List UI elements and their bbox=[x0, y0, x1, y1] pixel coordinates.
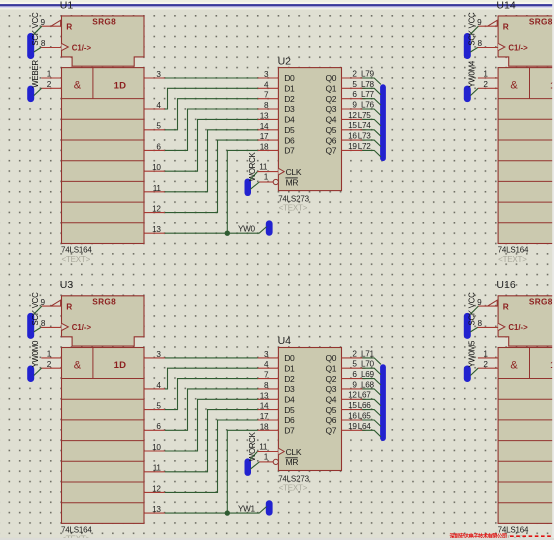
right window edge bbox=[552, 0, 554, 540]
wire U4 Q7 (pin 19) to terminal L64 bbox=[362, 430, 381, 437]
wire terminal SCK VCC to U3 pin 9 bbox=[34, 306, 42, 314]
wire 164 pin 3 to 273 D0 bbox=[165, 357, 258, 359]
wire 164 pin 5 to 273 D2 bbox=[165, 99, 258, 130]
wire 164 pin 13 to 273 D7 bbox=[227, 430, 258, 513]
svg-text:D4: D4 bbox=[284, 395, 295, 405]
svg-text:L69: L69 bbox=[361, 370, 375, 379]
svg-text:Q3: Q3 bbox=[325, 384, 336, 394]
svg-text:CLK: CLK bbox=[286, 447, 302, 457]
svg-text:12: 12 bbox=[348, 111, 357, 120]
svg-text:R: R bbox=[66, 22, 72, 32]
svg-text:YW0: YW0 bbox=[238, 225, 256, 234]
pin number 6 and net label L69 bbox=[352, 370, 374, 379]
svg-text:12: 12 bbox=[152, 484, 161, 493]
wire 164 pin 4 to 273 D1 bbox=[165, 368, 258, 389]
wire U4 Q2 (pin 6) to terminal L69 bbox=[362, 379, 381, 385]
svg-text:9: 9 bbox=[477, 18, 482, 27]
bottom window edge bbox=[0, 538, 554, 540]
svg-text:YW0M0: YW0M0 bbox=[31, 340, 40, 367]
svg-text:15: 15 bbox=[348, 401, 357, 410]
wire terminal WORCK to U2 MR pin 1 bbox=[250, 182, 259, 189]
svg-text:15: 15 bbox=[348, 121, 357, 130]
wire U4 Q0 (pin 2) to terminal L71 bbox=[362, 358, 381, 364]
svg-text:19: 19 bbox=[348, 422, 357, 431]
svg-text:3: 3 bbox=[264, 350, 269, 359]
svg-text:D5: D5 bbox=[284, 405, 295, 415]
svg-text:Q2: Q2 bbox=[325, 374, 336, 384]
shift register U14 (74LS164, SRG8) bbox=[477, 16, 554, 264]
svg-text:8: 8 bbox=[478, 319, 483, 328]
pin number 15 and net label L66 bbox=[348, 401, 371, 410]
svg-text:1: 1 bbox=[264, 452, 269, 461]
wire 164 pin 6 to 273 D3 bbox=[165, 109, 258, 150]
wire terminal SCK VCC to U1 pin 8 bbox=[34, 48, 41, 53]
wire 164 pin 3 to 273 D0 bbox=[165, 77, 258, 79]
svg-text:L78: L78 bbox=[361, 80, 375, 89]
svg-text:D6: D6 bbox=[284, 415, 295, 425]
svg-text:Q7: Q7 bbox=[325, 146, 336, 156]
svg-text:Q5: Q5 bbox=[325, 125, 336, 135]
svg-text:L72: L72 bbox=[358, 142, 372, 151]
pin number 12 and net label L75 bbox=[348, 111, 371, 120]
terminal SCK VCC (U3 clock/reset) bbox=[27, 292, 40, 339]
svg-text:Q1: Q1 bbox=[325, 363, 336, 373]
svg-text:U2: U2 bbox=[278, 55, 292, 67]
svg-text:16: 16 bbox=[348, 411, 357, 420]
svg-text:D6: D6 bbox=[284, 135, 295, 145]
terminal YW0 bbox=[238, 220, 273, 235]
svg-text:9: 9 bbox=[352, 380, 357, 389]
svg-text:Q4: Q4 bbox=[325, 395, 336, 405]
svg-text:8: 8 bbox=[264, 381, 269, 390]
svg-text:&: & bbox=[510, 80, 518, 92]
svg-text:L76: L76 bbox=[361, 101, 375, 110]
wire U2 Q5 (pin 15) to terminal L74 bbox=[362, 130, 381, 136]
svg-text:L68: L68 bbox=[361, 380, 375, 389]
svg-text:18: 18 bbox=[260, 142, 269, 151]
svg-text:Q1: Q1 bbox=[325, 84, 336, 94]
shift register U16 (74LS164, SRG8) bbox=[477, 296, 554, 540]
wire terminal WEBER to U1 pin 2 bbox=[34, 88, 42, 95]
wire 164 pin 11 to 273 D5 bbox=[165, 130, 258, 192]
wire terminal YW0M0 to U3 pin 2 bbox=[34, 368, 42, 375]
terminal YW0M5 (U16 serial data) bbox=[464, 340, 477, 382]
wire 164 pin 4 to 273 D1 bbox=[165, 88, 258, 109]
svg-text:1: 1 bbox=[483, 350, 488, 359]
svg-text:2: 2 bbox=[47, 80, 52, 89]
svg-text:D3: D3 bbox=[284, 104, 295, 114]
shift register U3 (74LS164, SRG8) bbox=[41, 296, 165, 540]
svg-text:L74: L74 bbox=[358, 121, 372, 130]
svg-text:11: 11 bbox=[259, 163, 268, 172]
red watermark dashed line bbox=[510, 535, 554, 537]
wire terminal YW0M4 to U14 pin 2 bbox=[470, 88, 478, 95]
svg-text:Q6: Q6 bbox=[325, 415, 336, 425]
terminal WORCK (U4 clock) bbox=[245, 431, 258, 475]
svg-text:13: 13 bbox=[152, 225, 161, 234]
svg-text:R: R bbox=[503, 302, 509, 312]
svg-text:18: 18 bbox=[260, 422, 269, 431]
svg-text:C1/->: C1/-> bbox=[508, 323, 528, 332]
svg-text:L67: L67 bbox=[358, 391, 372, 400]
wire U4 Q6 (pin 16) to terminal L65 bbox=[362, 420, 381, 426]
svg-text:13: 13 bbox=[152, 505, 161, 514]
svg-text:D0: D0 bbox=[284, 353, 295, 363]
svg-text:2: 2 bbox=[47, 360, 52, 369]
wire U2 Q6 (pin 16) to terminal L73 bbox=[362, 140, 381, 146]
svg-text:Q4: Q4 bbox=[325, 115, 336, 125]
output terminal bus bar right of U4 bbox=[380, 364, 386, 441]
pin number 5 and net label L70 bbox=[352, 360, 374, 369]
wire terminal WORCK to U2 CLK pin 11 bbox=[250, 172, 257, 180]
output terminal bus bar right of U2 bbox=[380, 84, 386, 161]
svg-text:14: 14 bbox=[260, 122, 269, 131]
svg-text:17: 17 bbox=[260, 412, 269, 421]
svg-text:R: R bbox=[503, 22, 509, 32]
wire U4 Q4 (pin 12) to terminal L67 bbox=[362, 399, 381, 405]
svg-text:14: 14 bbox=[260, 402, 269, 411]
wire U4 Q3 (pin 9) to terminal L68 bbox=[362, 389, 381, 395]
terminal SCK VCC (U1 clock/reset) bbox=[27, 12, 40, 59]
svg-text:D4: D4 bbox=[284, 115, 295, 125]
svg-text:9: 9 bbox=[41, 298, 46, 307]
svg-text:8: 8 bbox=[264, 101, 269, 110]
horizontal blue divider line bbox=[0, 4, 554, 6]
svg-text:L66: L66 bbox=[358, 401, 372, 410]
pin number 19 and net label L72 bbox=[348, 142, 371, 151]
svg-text:YW0M5: YW0M5 bbox=[468, 340, 477, 367]
svg-text:8: 8 bbox=[478, 39, 483, 48]
svg-text:6: 6 bbox=[352, 90, 357, 99]
wire 164 pin 10 to 273 D4 bbox=[165, 119, 258, 171]
terminal YW0M0 (U3 serial data) bbox=[27, 340, 40, 382]
terminal YW1 bbox=[238, 500, 273, 515]
terminal SCK VCC (U16 clock/reset) bbox=[464, 292, 477, 339]
svg-text:&: & bbox=[74, 80, 82, 92]
pin number 9 and net label L76 bbox=[352, 101, 374, 110]
svg-text:CLK: CLK bbox=[286, 167, 302, 177]
wire U4 Q5 (pin 15) to terminal L66 bbox=[362, 410, 381, 416]
pin number 2 and net label L79 bbox=[352, 69, 374, 78]
wire 164 pin 13 to terminal YW1 bbox=[165, 512, 260, 514]
svg-text:5: 5 bbox=[156, 122, 161, 131]
svg-text:<TEXT>: <TEXT> bbox=[279, 484, 308, 493]
wire terminal SCK VCC to U3 pin 8 bbox=[34, 327, 41, 332]
pin number 2 and net label L71 bbox=[352, 349, 374, 358]
pin number 15 and net label L74 bbox=[348, 121, 371, 130]
svg-text:5: 5 bbox=[352, 80, 357, 89]
wire to terminal YW1 bbox=[259, 507, 266, 514]
svg-text:8: 8 bbox=[41, 39, 46, 48]
wire terminal SCK VCC to U14 pin 9 bbox=[470, 26, 478, 34]
svg-text:Q6: Q6 bbox=[325, 135, 336, 145]
svg-text:L64: L64 bbox=[358, 422, 372, 431]
svg-text:U4: U4 bbox=[278, 335, 292, 347]
svg-text:7: 7 bbox=[264, 371, 269, 380]
wire to terminal YW0 bbox=[259, 227, 266, 234]
svg-text:D7: D7 bbox=[284, 146, 295, 156]
pin number 5 and net label L78 bbox=[352, 80, 374, 89]
shift register U1 (74LS164, SRG8) bbox=[41, 16, 165, 264]
svg-text:9: 9 bbox=[41, 18, 46, 27]
svg-text:13: 13 bbox=[260, 391, 269, 400]
svg-text:6: 6 bbox=[156, 142, 161, 151]
svg-text:D1: D1 bbox=[284, 363, 295, 373]
pin number 16 and net label L65 bbox=[348, 411, 371, 420]
svg-text:D2: D2 bbox=[284, 374, 295, 384]
svg-text:10: 10 bbox=[152, 443, 161, 452]
wire 164 pin 12 to 273 D6 bbox=[165, 420, 258, 492]
octal flip-flop U2 (74LS273) bbox=[257, 68, 365, 213]
svg-text:D1: D1 bbox=[284, 84, 295, 94]
svg-text:10: 10 bbox=[152, 163, 161, 172]
wire terminal SCK VCC to U14 pin 8 bbox=[470, 48, 477, 53]
svg-text:D0: D0 bbox=[284, 73, 295, 83]
svg-text:D7: D7 bbox=[284, 426, 295, 436]
svg-text:&: & bbox=[74, 360, 82, 372]
svg-text:4: 4 bbox=[264, 360, 269, 369]
svg-text:13: 13 bbox=[260, 111, 269, 120]
svg-text:Q0: Q0 bbox=[325, 353, 336, 363]
svg-text:2: 2 bbox=[352, 349, 357, 358]
wire U2 Q2 (pin 6) to terminal L77 bbox=[362, 99, 381, 105]
svg-text:3: 3 bbox=[156, 350, 161, 359]
svg-text:12: 12 bbox=[152, 205, 161, 214]
svg-text:YW1: YW1 bbox=[238, 505, 256, 514]
svg-text:L77: L77 bbox=[361, 90, 375, 99]
svg-text:SRG8: SRG8 bbox=[529, 296, 553, 306]
terminal YW0M4 (U14 serial data) bbox=[464, 60, 477, 102]
svg-text:&: & bbox=[510, 360, 518, 372]
svg-text:Q7: Q7 bbox=[325, 426, 336, 436]
svg-text:1: 1 bbox=[47, 350, 52, 359]
svg-text:74LS164: 74LS164 bbox=[61, 526, 92, 535]
svg-text:17: 17 bbox=[260, 132, 269, 141]
svg-text:11: 11 bbox=[153, 464, 162, 473]
svg-text:2: 2 bbox=[483, 360, 488, 369]
wire 164 pin 13 to 273 D7 bbox=[227, 150, 258, 233]
pin number 9 and net label L68 bbox=[352, 380, 374, 389]
svg-text:Q3: Q3 bbox=[325, 104, 336, 114]
terminal WEBER (U1 serial data) bbox=[27, 60, 40, 103]
svg-text:L75: L75 bbox=[358, 111, 372, 120]
svg-text:9: 9 bbox=[352, 101, 357, 110]
svg-text:1D: 1D bbox=[114, 360, 127, 371]
wire terminal YW0M5 to U16 pin 2 bbox=[470, 368, 478, 375]
svg-text:Q5: Q5 bbox=[325, 405, 336, 415]
svg-text:5: 5 bbox=[352, 360, 357, 369]
svg-text:1: 1 bbox=[483, 70, 488, 79]
wire 164 pin 12 to 273 D6 bbox=[165, 140, 258, 213]
svg-text:L73: L73 bbox=[358, 132, 372, 141]
svg-text:2: 2 bbox=[352, 69, 357, 78]
svg-text:6: 6 bbox=[156, 422, 161, 431]
wire terminal SCK VCC to U1 pin 9 bbox=[34, 26, 42, 34]
svg-text:6: 6 bbox=[352, 370, 357, 379]
svg-text:11: 11 bbox=[259, 443, 268, 452]
svg-text:4: 4 bbox=[156, 381, 161, 390]
svg-text:1D: 1D bbox=[114, 80, 127, 91]
svg-text:L70: L70 bbox=[361, 360, 375, 369]
svg-text:19: 19 bbox=[348, 142, 357, 151]
svg-text:11: 11 bbox=[153, 184, 162, 193]
terminal SCK VCC (U14 clock/reset) bbox=[464, 12, 477, 59]
svg-text:5: 5 bbox=[156, 402, 161, 411]
wire U2 Q0 (pin 2) to terminal L79 bbox=[362, 78, 381, 84]
svg-text:MR: MR bbox=[286, 457, 299, 467]
svg-text:U14: U14 bbox=[496, 0, 515, 11]
svg-text:D3: D3 bbox=[284, 384, 295, 394]
svg-text:L65: L65 bbox=[358, 411, 372, 420]
svg-text:<TEXT>: <TEXT> bbox=[498, 255, 527, 264]
wire U2 Q7 (pin 19) to terminal L72 bbox=[362, 150, 381, 156]
wire 164 pin 5 to 273 D2 bbox=[165, 379, 258, 410]
svg-text:WEBER: WEBER bbox=[31, 60, 40, 88]
svg-text:16: 16 bbox=[348, 132, 357, 141]
svg-text:Q0: Q0 bbox=[325, 73, 336, 83]
svg-text:U1: U1 bbox=[60, 0, 74, 11]
svg-text:9: 9 bbox=[477, 298, 482, 307]
wire terminal WORCK to U4 CLK pin 11 bbox=[250, 452, 257, 460]
svg-text:<TEXT>: <TEXT> bbox=[279, 204, 308, 213]
svg-text:4: 4 bbox=[156, 101, 161, 110]
svg-text:R: R bbox=[66, 302, 72, 312]
svg-text:SRG8: SRG8 bbox=[92, 16, 116, 26]
wire 164 pin 6 to 273 D3 bbox=[165, 389, 258, 430]
terminal WORCK (U2 clock) bbox=[245, 152, 258, 196]
pin number 6 and net label L77 bbox=[352, 90, 374, 99]
top border strips bbox=[0, 0, 554, 2]
svg-text:74LS273: 74LS273 bbox=[278, 474, 309, 483]
svg-text:C1/->: C1/-> bbox=[72, 43, 92, 52]
svg-text:L79: L79 bbox=[361, 69, 375, 78]
wire terminal SCK VCC to U16 pin 8 bbox=[470, 327, 477, 332]
wire U2 Q3 (pin 9) to terminal L76 bbox=[362, 109, 381, 116]
pin number 12 and net label L67 bbox=[348, 391, 371, 400]
wire U4 Q1 (pin 5) to terminal L70 bbox=[362, 368, 381, 374]
wire U2 Q4 (pin 12) to terminal L75 bbox=[362, 119, 381, 125]
svg-text:L71: L71 bbox=[361, 349, 375, 358]
svg-text:8: 8 bbox=[41, 319, 46, 328]
svg-text:C1/->: C1/-> bbox=[72, 323, 92, 332]
wire 164 pin 11 to 273 D5 bbox=[165, 410, 258, 472]
svg-text:D5: D5 bbox=[284, 125, 295, 135]
junction on net YW0 bbox=[225, 231, 230, 236]
octal flip-flop U4 (74LS273) bbox=[257, 348, 365, 493]
pin number 19 and net label L64 bbox=[348, 422, 371, 431]
svg-text:D2: D2 bbox=[284, 94, 295, 104]
svg-text:U3: U3 bbox=[60, 279, 74, 291]
svg-text:<TEXT>: <TEXT> bbox=[62, 255, 91, 264]
svg-text:1: 1 bbox=[264, 173, 269, 182]
svg-text:74LS164: 74LS164 bbox=[498, 246, 529, 255]
svg-text:SRG8: SRG8 bbox=[92, 296, 116, 306]
svg-text:7: 7 bbox=[264, 91, 269, 100]
svg-text:74LS164: 74LS164 bbox=[61, 246, 92, 255]
junction on net YW1 bbox=[225, 510, 230, 515]
svg-text:3: 3 bbox=[156, 70, 161, 79]
svg-text:1: 1 bbox=[47, 70, 52, 79]
wire U2 Q1 (pin 5) to terminal L78 bbox=[362, 88, 381, 95]
pin number 16 and net label L73 bbox=[348, 132, 371, 141]
svg-text:C1/->: C1/-> bbox=[508, 43, 528, 52]
svg-text:YW0M4: YW0M4 bbox=[468, 60, 477, 87]
wire terminal SCK VCC to U16 pin 9 bbox=[470, 306, 478, 314]
svg-text:74LS273: 74LS273 bbox=[278, 194, 309, 203]
svg-text:Q2: Q2 bbox=[325, 94, 336, 104]
svg-text:MR: MR bbox=[286, 177, 299, 187]
svg-text:U16: U16 bbox=[496, 279, 515, 291]
svg-text:12: 12 bbox=[348, 391, 357, 400]
svg-text:4: 4 bbox=[264, 80, 269, 89]
svg-text:2: 2 bbox=[483, 80, 488, 89]
wire 164 pin 10 to 273 D4 bbox=[165, 399, 258, 451]
wire terminal WORCK to U4 MR pin 1 bbox=[250, 462, 259, 469]
svg-text:SRG8: SRG8 bbox=[529, 16, 553, 26]
svg-text:3: 3 bbox=[264, 70, 269, 79]
wire 164 pin 13 to terminal YW0 bbox=[165, 232, 260, 234]
